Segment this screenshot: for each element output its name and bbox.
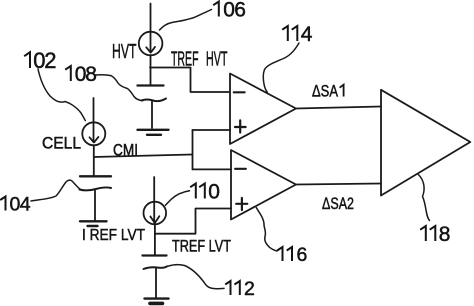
svg-text:HVT: HVT [112, 41, 137, 63]
wire: capacitor 108 to ground [151, 101, 153, 128]
wire: CELL source to CMI node [93, 145, 95, 176]
wire: bus to comparator 114 plus input [193, 129, 231, 131]
svg-text:TREF LVT: TREF LVT [172, 238, 231, 256]
ref number 118 [420, 223, 450, 246]
wire: comparator 116 output (ΔSA2) to amplifier 118 [296, 184, 381, 185]
leader line for 118 [418, 175, 429, 221]
leader line for 110 [165, 191, 189, 205]
current source 102 (CELL) [82, 122, 105, 145]
svg-text:CMI: CMI [113, 142, 138, 160]
op-amp comparator 116 [231, 150, 296, 220]
leader line for 108 [96, 75, 143, 101]
svg-text:8: 8 [85, 63, 97, 86]
svg-text:6: 6 [297, 244, 308, 266]
ground (below capacitor 108) [138, 130, 169, 135]
capacitor 108 bottom plate (curved) [142, 99, 167, 102]
node TREF HVT: branch to comparator 114 minus [150, 68, 230, 93]
svg-text:2: 2 [244, 278, 255, 300]
amplifier 118 [381, 90, 470, 196]
svg-text:6: 6 [234, 0, 246, 22]
wire stub above HVT source (arrow shaft) [150, 4, 152, 53]
wire stub above CELL source (arrow shaft) [93, 98, 95, 142]
capacitor 104 top plate [80, 175, 111, 177]
svg-text:TREF: TREF [171, 49, 199, 71]
svg-text:0: 0 [223, 0, 235, 22]
current source 110 (LVT cell) [144, 202, 167, 225]
wire: HVT source to TREF HVT node [150, 55, 152, 85]
node TREF LVT: branch to comparator 116 plus [156, 209, 232, 234]
leader line for 112 [168, 265, 225, 289]
leader line for 106 [160, 10, 212, 31]
capacitor 108 top plate [138, 84, 164, 86]
wire: comparator 114 output (ΔSA1) to amplifier 118 [296, 107, 381, 109]
svg-text:2: 2 [44, 48, 56, 73]
ground (below capacitor 112) [145, 299, 169, 304]
svg-text:HVT: HVT [206, 49, 228, 71]
wire: LVT source to TREF LVT node [154, 224, 156, 255]
wire: input bus vertical (CMI to comparator inputs) [192, 130, 194, 169]
svg-text:I REF LVT: I REF LVT [82, 227, 145, 244]
ref number 114 [282, 23, 313, 46]
wire stub above LVT source (arrow shaft) [153, 177, 155, 223]
svg-text:ΔSA2: ΔSA2 [322, 195, 354, 213]
svg-text:0: 0 [208, 181, 220, 204]
ref number 102 [24, 48, 56, 73]
svg-text:CELL: CELL [42, 135, 81, 153]
leader line for 114 [263, 43, 299, 92]
svg-text:4: 4 [301, 23, 313, 46]
wire: capacitor 104 to ground [94, 191, 96, 221]
ref number 116 [277, 244, 307, 266]
svg-text:ΔSA: ΔSA [312, 83, 338, 101]
capacitor 112 bottom plate (curved) [144, 266, 168, 269]
leader line for 104 [31, 180, 81, 201]
ref number 108 [65, 63, 97, 86]
op-amp comparator 114 [230, 74, 296, 145]
node CMI / wire CMI to input bus [94, 155, 192, 158]
ground (below capacitor 104) [80, 221, 107, 226]
wire: capacitor 112 to ground [155, 269, 157, 298]
capacitor 112 top plate [143, 254, 167, 256]
ref number 112 [225, 278, 255, 300]
capacitor 104 bottom plate (curved) [80, 187, 112, 190]
current source 106 (HVT cell) [139, 32, 163, 56]
ref number 106 [213, 0, 246, 22]
svg-text:4: 4 [20, 194, 31, 216]
svg-text:8: 8 [439, 223, 451, 246]
ref number 104 [0, 194, 31, 216]
wire: bus to comparator 116 minus input [193, 168, 232, 170]
leader line for 102 [38, 69, 85, 121]
ref number 110 [190, 181, 220, 204]
leader line for 116 [256, 208, 277, 251]
